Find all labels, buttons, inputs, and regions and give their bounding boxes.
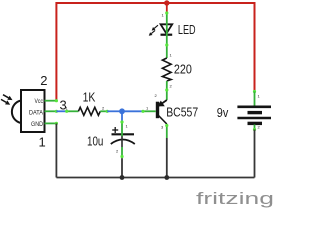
LED emission arrow b [149,30,155,35]
svg-text:2: 2 [155,93,158,98]
svg-text:1: 1 [162,13,165,18]
svg-text:2: 2 [170,84,173,89]
svg-text:2: 2 [116,149,119,154]
wire top +9V rail (red) [56,3,254,101]
fritzing watermark [196,190,274,208]
svg-text:1: 1 [39,135,46,150]
wire junction to LED anode (red) [166,3,168,13]
resistor R2 220 [162,58,171,100]
transistor Q1 BC557 [141,100,168,138]
wire junction down to C1 (blue) [121,111,123,122]
pin 2 Vcc leg (green) [45,99,59,102]
label pin 2 [40,73,47,88]
label 10u [87,134,103,148]
label LED [178,23,196,37]
svg-text:fritzing: fritzing [196,190,273,208]
label BC557 [166,105,198,119]
tiny pin labels (faint) [66,13,261,154]
pin 1 GND leg (green) [45,122,59,125]
IR receiver U1 body [12,90,45,132]
label 1K [83,91,96,105]
wire receiver GND down (dark) [55,123,57,177]
wire DATA to R1 (blue) [56,110,66,112]
capacitor C1 10u [111,120,135,158]
IR receiver incoming light arrow a [3,95,13,100]
label 220 [174,63,192,77]
svg-text:1: 1 [126,124,129,129]
wire R1 to junction (blue) [107,110,122,112]
battery BT1 9v [237,90,271,131]
svg-text:2: 2 [258,125,261,130]
svg-text:BC557: BC557 [166,105,198,119]
svg-text:LED: LED [178,23,196,37]
resistor R1 1K [65,107,109,115]
wire bottom ground rail (dark) [56,177,254,179]
IR receiver incoming light arrow b [1,99,10,104]
pin 3 DATA leg (green) [45,110,59,113]
node ground junction at Q1 [164,175,169,180]
svg-text:GND: GND [31,121,43,128]
LED D1 [161,11,173,58]
svg-text:2: 2 [40,73,47,88]
node ground junction at C1 [120,175,125,180]
svg-text:1K: 1K [83,91,96,105]
svg-text:2: 2 [102,105,105,110]
label pin 3 [60,98,67,113]
wire C1 to ground rail (dark) [121,158,123,177]
node top junction (red dot) [164,0,169,5]
node base junction (blue dot) [119,108,125,114]
label 9v [217,106,229,120]
wire battery minus to ground rail (dark) [254,130,256,178]
svg-text:1: 1 [170,53,173,58]
svg-text:9v: 9v [217,106,229,120]
svg-text:1: 1 [146,105,149,110]
svg-text:DATA: DATA [29,109,44,116]
svg-text:10u: 10u [87,134,103,148]
wire Q1 collector to ground rail (dark) [166,138,168,178]
svg-text:Vcc: Vcc [35,98,44,105]
wire junction to Q1 base (blue) [122,110,143,112]
LED emission arrow a [152,25,158,30]
svg-text:3: 3 [161,125,164,130]
svg-text:1: 1 [258,94,261,99]
svg-text:220: 220 [174,63,192,77]
label pin 1 [39,135,46,150]
svg-text:1: 1 [66,105,69,110]
